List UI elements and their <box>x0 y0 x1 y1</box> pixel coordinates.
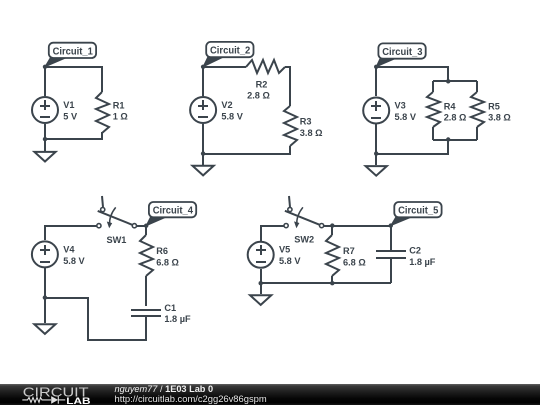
svg-text:5 V: 5 V <box>63 111 78 121</box>
svg-text:6.8 Ω: 6.8 Ω <box>343 258 366 268</box>
svg-text:C1: C1 <box>164 303 176 313</box>
svg-text:2.8 Ω: 2.8 Ω <box>444 113 467 123</box>
svg-text:V3: V3 <box>395 100 406 110</box>
svg-text:Circuit_2: Circuit_2 <box>210 46 250 57</box>
svg-text:SW2: SW2 <box>294 235 314 245</box>
svg-text:V4: V4 <box>63 244 75 254</box>
svg-text:Circuit_1: Circuit_1 <box>53 46 93 57</box>
svg-text:1.8 µF: 1.8 µF <box>409 257 436 267</box>
svg-text:R6: R6 <box>156 246 168 256</box>
svg-text:R1: R1 <box>113 101 125 111</box>
svg-text:SW1: SW1 <box>107 235 127 245</box>
svg-text:R5: R5 <box>488 101 500 111</box>
svg-text:R3: R3 <box>300 116 312 126</box>
svg-text:R4: R4 <box>444 101 457 111</box>
svg-text:1.8 µF: 1.8 µF <box>164 314 191 324</box>
svg-text:R2: R2 <box>256 80 268 90</box>
svg-text:V2: V2 <box>221 100 232 110</box>
svg-text:Circuit_5: Circuit_5 <box>398 206 438 217</box>
svg-text:5.8 V: 5.8 V <box>395 112 417 122</box>
svg-text:5.8 V: 5.8 V <box>63 256 85 266</box>
svg-text:3.8 Ω: 3.8 Ω <box>488 113 511 123</box>
svg-text:V1: V1 <box>63 100 74 110</box>
svg-text:5.8 V: 5.8 V <box>221 111 243 121</box>
svg-text:3.8 Ω: 3.8 Ω <box>300 128 323 138</box>
svg-text:6.8 Ω: 6.8 Ω <box>156 258 179 268</box>
svg-text:R7: R7 <box>343 246 355 256</box>
svg-text:1 Ω: 1 Ω <box>113 112 128 122</box>
svg-text:2.8 Ω: 2.8 Ω <box>247 90 270 100</box>
svg-text:C2: C2 <box>409 246 421 256</box>
svg-text:http://circuitlab.com/c2gg26v8: http://circuitlab.com/c2gg26v86gspm <box>115 393 267 404</box>
svg-text:V5: V5 <box>279 245 290 255</box>
svg-text:Circuit_3: Circuit_3 <box>382 47 422 58</box>
svg-text:5.8 V: 5.8 V <box>279 256 301 266</box>
svg-text:Circuit_4: Circuit_4 <box>153 206 193 217</box>
svg-text:LAB: LAB <box>66 396 91 405</box>
